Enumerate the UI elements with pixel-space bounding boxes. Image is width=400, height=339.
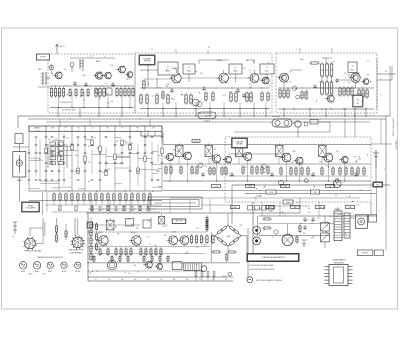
svg-text:4,7k: 4,7k bbox=[158, 88, 161, 90]
svg-text:470: 470 bbox=[126, 143, 129, 145]
svg-text:HF FM: HF FM bbox=[40, 57, 46, 59]
svg-text:33k: 33k bbox=[166, 86, 169, 88]
svg-text:22k: 22k bbox=[110, 101, 113, 103]
svg-text:10k: 10k bbox=[293, 207, 296, 209]
svg-text:15k: 15k bbox=[303, 233, 306, 235]
svg-text:1000: 1000 bbox=[286, 202, 290, 204]
svg-text:0,1: 0,1 bbox=[253, 61, 255, 63]
svg-text:1k: 1k bbox=[329, 186, 331, 188]
svg-text:33k: 33k bbox=[348, 207, 351, 209]
svg-text:452k: 452k bbox=[194, 141, 198, 143]
svg-text:2,2k: 2,2k bbox=[283, 186, 287, 188]
svg-text:56k: 56k bbox=[233, 207, 236, 209]
svg-text:47k: 47k bbox=[223, 95, 226, 97]
svg-text:120: 120 bbox=[248, 186, 251, 188]
svg-text:68k: 68k bbox=[83, 75, 86, 77]
svg-text:220: 220 bbox=[313, 192, 316, 194]
svg-text:1n: 1n bbox=[70, 177, 72, 179]
svg-text:33k: 33k bbox=[173, 149, 176, 151]
svg-text:6,8k: 6,8k bbox=[358, 159, 361, 161]
svg-text:33k: 33k bbox=[338, 214, 341, 216]
svg-text:HF FM: HF FM bbox=[144, 61, 150, 63]
svg-text:470: 470 bbox=[268, 207, 271, 209]
svg-text:4,7k: 4,7k bbox=[214, 186, 218, 188]
